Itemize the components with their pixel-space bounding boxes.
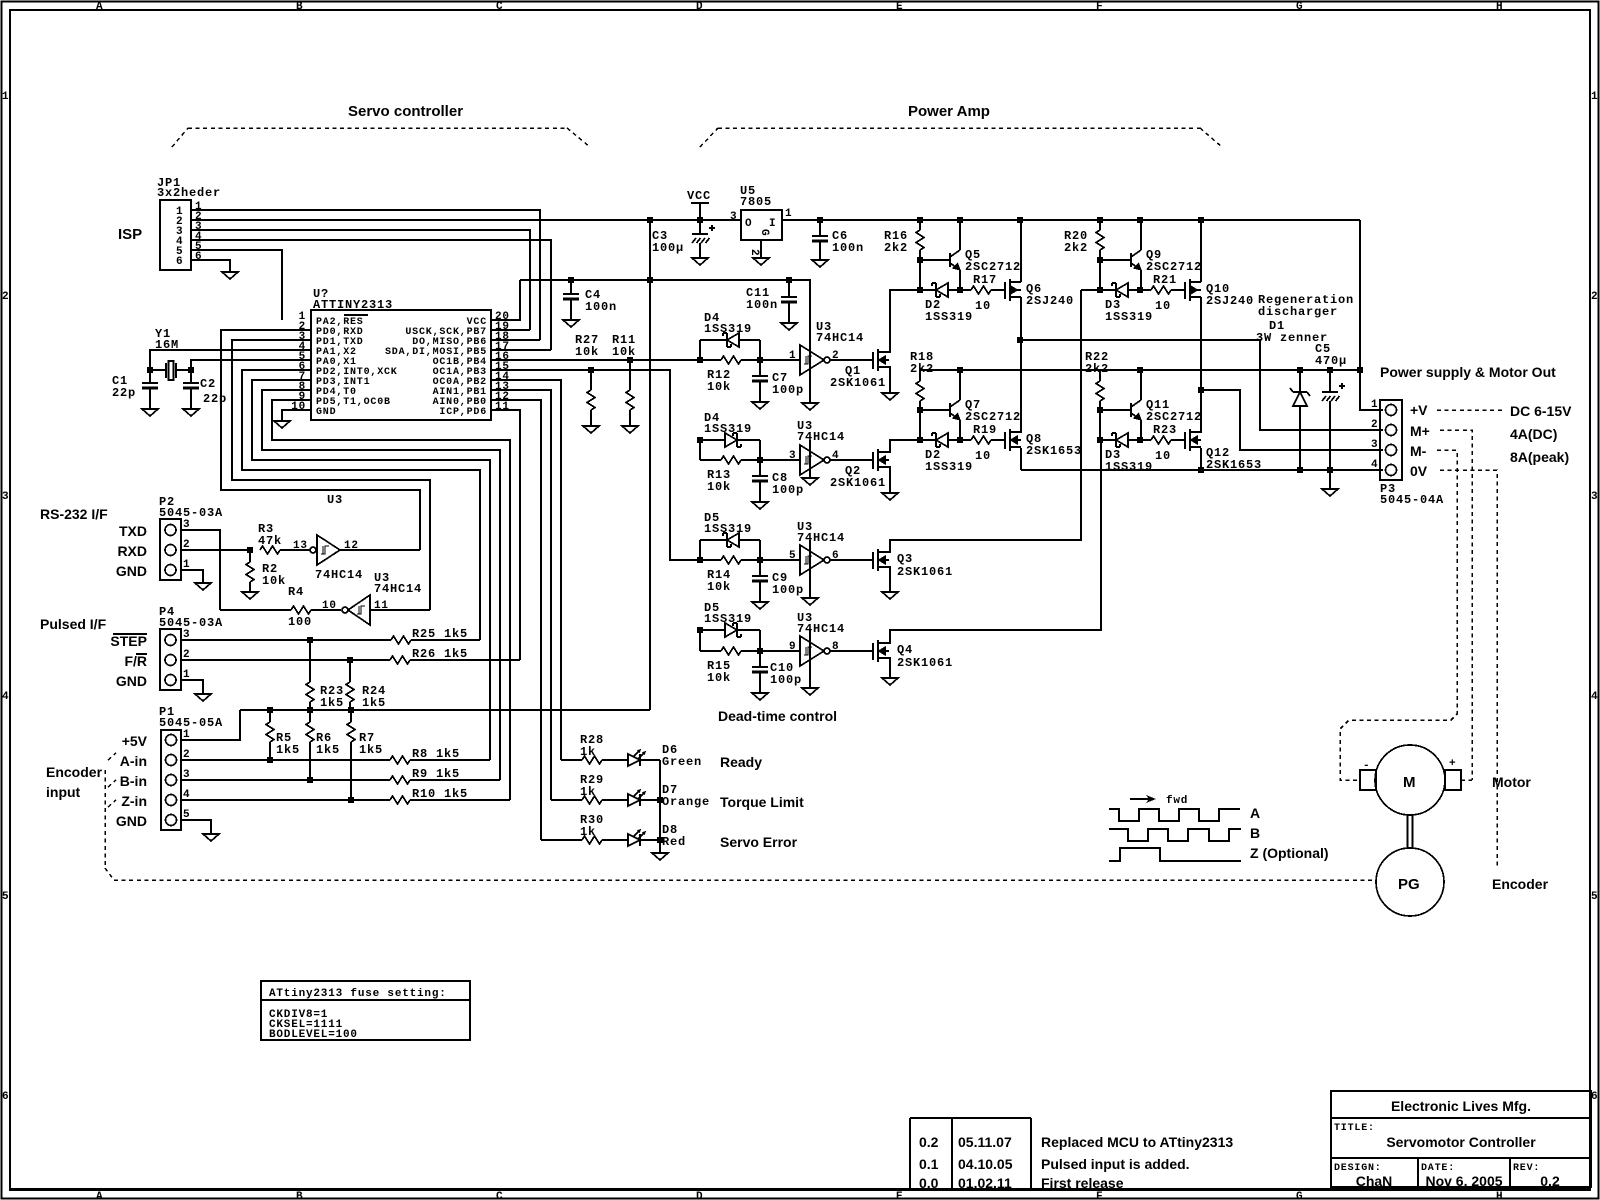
svg-text:Replaced MCU to ATtiny2313: Replaced MCU to ATtiny2313: [1041, 1134, 1233, 1150]
svg-text:VCC: VCC: [687, 189, 711, 203]
svg-text:0.0: 0.0: [919, 1175, 939, 1191]
wire LED common cathode: [659, 760, 661, 853]
junction: [786, 277, 792, 283]
svg-text:BODLEVEL=100: BODLEVEL=100: [269, 1029, 358, 1041]
ground (C7): [752, 402, 768, 409]
wire C1 top lead: [149, 370, 151, 383]
resistor R11: [626, 390, 634, 410]
svg-text:74HC14: 74HC14: [797, 622, 845, 636]
wire R13 to inverter input: [741, 459, 800, 461]
junction: [1097, 257, 1103, 263]
wire R23 to Q12 gate: [1171, 439, 1185, 441]
svg-text:DC 6-15V: DC 6-15V: [1510, 403, 1572, 419]
wire R22 bottom / Q11 base column: [1099, 401, 1101, 440]
svg-text:10: 10: [322, 600, 337, 612]
U? RES overline: [344, 314, 368, 316]
wire R20 bottom / Q9 base column: [1099, 250, 1101, 290]
wire R20 top lead: [1099, 220, 1101, 230]
transistor Q4 2SK1061: [873, 640, 889, 662]
junction: [1137, 367, 1143, 373]
wire C7 bottom lead: [759, 381, 761, 402]
svg-text:3: 3: [2, 491, 9, 503]
svg-text:+: +: [1449, 758, 1456, 770]
wire MCU PD5 to R10: [272, 400, 510, 800]
wire crystal left lead: [150, 369, 166, 371]
wire +V to P3 pin1: [1360, 220, 1383, 410]
P4 pin 3 circle: [165, 635, 176, 646]
wire MCU PA0/X1 to crystal: [191, 360, 311, 370]
wire D1 bottom lead: [1299, 406, 1301, 470]
junction: [307, 777, 313, 783]
wire D1 top lead: [1299, 370, 1301, 392]
wire R18 top lead: [919, 370, 921, 381]
capacitor C2: [183, 383, 199, 388]
svg-text:F: F: [1096, 1, 1103, 13]
inverter U3-C (pins 5/6): [800, 545, 830, 575]
junction: [307, 707, 313, 713]
resistor R10: [390, 796, 410, 804]
junction: [307, 637, 313, 643]
ground (MCU pin10): [274, 421, 290, 428]
svg-text:8A(peak): 8A(peak): [1510, 449, 1569, 465]
junction: [1097, 407, 1103, 413]
ground (P1): [203, 834, 219, 841]
svg-text:2k2: 2k2: [1085, 362, 1109, 376]
resistor R9: [390, 776, 410, 784]
power amp bracket dashed line: [718, 127, 1200, 129]
wire R10 to MCU PD5: [410, 799, 510, 801]
svg-text:input: input: [46, 784, 81, 800]
wire D4/R13 left link: [699, 440, 701, 460]
wire Q5 collector to rail: [959, 220, 961, 250]
resistor R23 (power amp): [1151, 436, 1171, 444]
svg-text:+V: +V: [1410, 402, 1428, 418]
svg-text:0.2: 0.2: [919, 1134, 939, 1150]
svg-text:22p: 22p: [112, 386, 136, 400]
svg-text:U3: U3: [327, 493, 343, 507]
svg-text:Pulsed input is added.: Pulsed input is added.: [1041, 1156, 1190, 1172]
wire Q5 emitter to line A: [959, 270, 961, 290]
wire R11 top lead: [629, 360, 631, 390]
svg-text:100p: 100p: [770, 673, 802, 687]
svg-text:2SJ240: 2SJ240: [1206, 294, 1254, 308]
ground (C1): [142, 409, 158, 416]
capacitor C3 (electrolytic): [692, 225, 715, 243]
wire Q4 drain to gate-drive line D: [889, 440, 1101, 643]
transistor Q7 2SC2712: [950, 400, 960, 420]
svg-text:2SK1061: 2SK1061: [830, 476, 886, 490]
junction: [1097, 437, 1103, 443]
diode D4 1SS319: [723, 333, 739, 347]
svg-text:R17: R17: [973, 273, 997, 287]
wire Q11 emitter to line D: [1140, 420, 1142, 440]
svg-text:GND: GND: [116, 673, 147, 689]
wire R15 left lead: [700, 650, 721, 652]
dashed encoder bus to PG: [114, 879, 1374, 881]
wire D7 to common: [640, 799, 660, 801]
svg-text:Encoder: Encoder: [46, 764, 103, 780]
wire D2 left lead: [920, 289, 936, 291]
svg-text:F/R: F/R: [124, 653, 147, 669]
dashed encoder bus corner: [105, 868, 114, 880]
wire MCU GND pin10: [282, 410, 311, 421]
wire JP1-1 MISO to MCU pin18: [191, 210, 540, 340]
svg-text:22p: 22p: [203, 392, 227, 406]
svg-text:74HC14: 74HC14: [816, 331, 864, 345]
svg-text:R10 1k5: R10 1k5: [412, 787, 468, 801]
junction: [697, 217, 703, 223]
wire MCU PD1/TXD to U3 pin11: [232, 340, 430, 610]
wire bypass diode right lead: [737, 439, 760, 441]
wire gate-drive line B left link: [1081, 289, 1100, 291]
ground (Q1): [882, 393, 898, 400]
svg-text:1: 1: [1591, 91, 1598, 103]
resistor R2: [246, 562, 254, 582]
junction: [1297, 467, 1303, 473]
junction: [347, 657, 353, 663]
wire Q2 drain to gate-drive line C: [889, 440, 920, 452]
connector P1 body: [161, 730, 181, 830]
diode D2 1SS319 (upper): [932, 283, 948, 297]
inverter U3-B (pins 3/4): [800, 445, 830, 475]
encoder PG circle: [1376, 848, 1444, 916]
junction: [957, 367, 963, 373]
svg-text:R26 1k5: R26 1k5: [412, 647, 468, 661]
wire D8 to common: [640, 839, 660, 841]
wire A-in line: [181, 759, 390, 761]
svg-text:2SC2712: 2SC2712: [1146, 260, 1202, 274]
svg-text:2SC2712: 2SC2712: [1146, 410, 1202, 424]
resistor R28: [582, 756, 602, 764]
junction: [757, 557, 763, 563]
svg-text:A: A: [1250, 805, 1260, 821]
wire C2 top lead: [190, 370, 192, 383]
wire Q3 drain to gate-drive line B: [889, 290, 1081, 552]
connector P2 body: [160, 519, 181, 580]
P4 pin 2 circle: [165, 655, 176, 666]
wire JP1-3 SCK to MCU pin19: [191, 230, 530, 330]
junction: [957, 437, 963, 443]
wire C4 top lead: [570, 280, 572, 294]
svg-text:Green: Green: [662, 755, 702, 769]
resistor R20: [1096, 230, 1104, 250]
LED D7 Orange: [628, 789, 646, 806]
wire inverter C ground stub: [809, 540, 811, 598]
F/R overline: [136, 653, 147, 655]
svg-text:470µ: 470µ: [1315, 354, 1347, 368]
wire C3 bottom lead: [699, 243, 701, 258]
svg-text:R23: R23: [1153, 423, 1177, 437]
ground (C6): [812, 260, 828, 267]
ground (0V rail): [1322, 489, 1338, 496]
ground (C3): [692, 258, 708, 265]
wire C10 top lead: [759, 651, 761, 667]
junction: [1327, 467, 1333, 473]
ground (C2): [183, 409, 199, 416]
wire Q9 emitter to line B: [1140, 270, 1142, 290]
servo controller bracket left slant: [172, 128, 188, 147]
svg-text:2k2: 2k2: [910, 362, 934, 376]
wire R2 bottom lead: [249, 582, 251, 592]
svg-text:B: B: [296, 1, 303, 13]
wire R14 left lead: [700, 559, 721, 561]
junction: [267, 757, 273, 763]
wire D5/R15 right link: [759, 630, 761, 651]
transistor Q3 2SK1061: [873, 549, 889, 571]
ground (R2): [242, 592, 258, 599]
wire bypass diode left lead: [700, 339, 727, 341]
svg-text:M-: M-: [1410, 443, 1427, 459]
connector JP1 body: [160, 200, 191, 270]
inverter U3-A (pins 1/2): [800, 345, 830, 375]
junction: [348, 707, 354, 713]
svg-text:Encoder: Encoder: [1492, 876, 1549, 892]
svg-text:4: 4: [1591, 691, 1598, 703]
wire R14 to inverter input: [741, 559, 800, 561]
svg-text:Nov 6, 2005: Nov 6, 2005: [1425, 1173, 1502, 1189]
svg-text:13: 13: [293, 540, 308, 552]
svg-text:10k: 10k: [612, 345, 636, 359]
svg-text:100n: 100n: [585, 300, 617, 314]
wire P1 GND: [181, 820, 211, 834]
wire 5V rail to U3 ground pin: [520, 280, 810, 403]
wire Q6 drain / M+ column: [1020, 297, 1022, 433]
wire R12 left lead: [700, 359, 721, 361]
svg-text:3: 3: [1591, 491, 1598, 503]
P1 pin 1 circle: [166, 735, 177, 746]
svg-text:2: 2: [748, 249, 760, 256]
svg-text:-: -: [1363, 760, 1370, 772]
wire R2 top lead: [249, 550, 251, 562]
wire MCU OC1A/PB3 to dead-time network B: [491, 370, 700, 560]
wire MCU PD0/RXD to U3 pin12: [221, 330, 420, 550]
wire D5/R15 left link: [699, 630, 701, 651]
zener diode D1: [1290, 388, 1310, 406]
svg-text:0V: 0V: [1410, 463, 1428, 479]
svg-text:74HC14: 74HC14: [797, 531, 845, 545]
junction: [757, 457, 763, 463]
svg-text:Ready: Ready: [720, 754, 762, 770]
wire Q7 emitter to line C: [959, 420, 961, 440]
ground (U3 gate D): [802, 688, 818, 695]
svg-text:2: 2: [1371, 419, 1378, 431]
junction: [1297, 367, 1303, 373]
resistor R30: [582, 836, 602, 844]
junction: [1137, 437, 1143, 443]
ground (U3 gate B): [802, 478, 818, 485]
capacitor C4: [563, 294, 579, 299]
wire C8 bottom lead: [759, 481, 761, 502]
junction: [657, 797, 663, 803]
svg-text:2SK1061: 2SK1061: [897, 565, 953, 579]
wire R29 left lead: [551, 799, 582, 801]
svg-text:REV:: REV:: [1513, 1163, 1540, 1174]
wire Q11 collector to +V rail: [1140, 370, 1142, 400]
wire Q4 source to ground: [889, 658, 890, 678]
wire C5 bottom lead: [1329, 401, 1331, 470]
wire MCU PB0 to R30: [491, 400, 541, 840]
svg-text:5045-05A: 5045-05A: [159, 716, 223, 730]
junction: [568, 277, 574, 283]
svg-text:2SJ240: 2SJ240: [1026, 294, 1074, 308]
wire R28 left lead: [561, 759, 582, 761]
wire U3-B output to Q2 gate: [830, 459, 873, 461]
wire bypass diode right lead: [737, 629, 760, 631]
svg-text:4: 4: [2, 691, 9, 703]
wire Q11 base lead: [1100, 409, 1131, 411]
wire JP1-6 to ground: [191, 260, 230, 272]
svg-text:Power Amp: Power Amp: [908, 103, 990, 120]
wire M- dashed to motor: [1340, 450, 1457, 780]
svg-text:G: G: [1296, 1, 1303, 13]
wire MCU PD3 to R8: [252, 380, 490, 760]
wire R27 top lead: [590, 370, 592, 390]
wire R30 to D8: [602, 839, 628, 841]
svg-text:10k: 10k: [707, 580, 731, 594]
wire R8 to MCU PD3: [410, 759, 490, 761]
svg-text:Torque Limit: Torque Limit: [720, 794, 804, 810]
svg-text:1SS319: 1SS319: [925, 460, 973, 474]
svg-text:10k: 10k: [707, 671, 731, 685]
wire R21 to Q10 gate: [1171, 289, 1185, 291]
wire R19 left lead: [960, 439, 971, 441]
wire Z-in line: [181, 799, 390, 801]
wire M- to P3 pin3: [1201, 390, 1383, 450]
P4 pin 1 circle: [165, 675, 176, 686]
wire D2 lower right lead: [948, 439, 960, 441]
svg-text:6: 6: [176, 256, 183, 268]
svg-text:H: H: [1496, 1191, 1503, 1200]
svg-text:Servomotor Controller: Servomotor Controller: [1386, 1134, 1536, 1150]
P3 pin 3 circle: [1386, 445, 1397, 456]
svg-text:2: 2: [2, 291, 9, 303]
svg-text:ICP,PD6: ICP,PD6: [439, 407, 487, 418]
wire inverter B ground stub: [809, 440, 811, 478]
wire VCC vertical feed: [649, 220, 651, 710]
wire P4 GND: [181, 680, 203, 694]
wire Q7 base lead: [920, 409, 950, 411]
wire C9 bottom lead: [759, 581, 761, 602]
resistor R15: [721, 647, 741, 655]
svg-text:2SK1061: 2SK1061: [830, 376, 886, 390]
capacitor C7: [752, 376, 768, 381]
wire D3 lower right lead: [1128, 439, 1140, 441]
wire C6 bottom lead: [819, 241, 821, 260]
svg-text:10k: 10k: [575, 345, 599, 359]
wire Q10 drain / M- column: [1200, 297, 1202, 433]
svg-text:F: F: [1096, 1191, 1103, 1200]
svg-text:05.11.07: 05.11.07: [958, 1134, 1012, 1150]
svg-text:5: 5: [789, 550, 796, 562]
junction: [188, 367, 194, 373]
svg-text:10k: 10k: [262, 574, 286, 588]
wire R5 top lead: [269, 710, 271, 722]
wire Q12 source to 0V rail: [1200, 448, 1202, 470]
wire D4/R12 right link: [759, 340, 761, 360]
capacitor C9: [752, 576, 768, 581]
wire +5V rail: [240, 709, 650, 711]
wire D4/R13 right link: [759, 440, 761, 460]
svg-text:100: 100: [288, 615, 312, 629]
svg-text:R8 1k5: R8 1k5: [412, 747, 460, 761]
junction: [1357, 367, 1363, 373]
svg-text:1k5: 1k5: [276, 743, 300, 757]
transistor Q9 2SC2712: [1131, 250, 1141, 270]
svg-text:2SC2712: 2SC2712: [965, 260, 1021, 274]
junction: [917, 407, 923, 413]
wire U3 pin12 output: [340, 549, 420, 551]
svg-text:1: 1: [2, 91, 9, 103]
svg-text:Q4: Q4: [897, 643, 913, 657]
resistor R29: [582, 796, 602, 804]
svg-text:fwd: fwd: [1166, 795, 1188, 807]
svg-text:100p: 100p: [772, 583, 804, 597]
junction: [817, 217, 823, 223]
svg-text:1k5: 1k5: [362, 696, 386, 710]
wire U3-A output to Q1 gate: [830, 359, 873, 361]
resistor R18: [916, 381, 924, 401]
svg-text:B: B: [1250, 825, 1260, 841]
resistor R12: [721, 356, 741, 364]
transistor Q10 2SJ240: [1185, 279, 1201, 301]
svg-text:5045-04A: 5045-04A: [1380, 493, 1444, 507]
resistor R27: [587, 390, 595, 410]
ground (Q2): [882, 493, 898, 500]
svg-text:2: 2: [1591, 291, 1598, 303]
IC U5 7805 body: [741, 210, 782, 240]
wire Q3 source to ground: [889, 567, 890, 592]
wire U3-C output to Q3 gate: [830, 559, 873, 561]
junction: [1017, 337, 1023, 343]
svg-text:Z (Optional): Z (Optional): [1250, 845, 1329, 861]
svg-text:Pulsed I/F: Pulsed I/F: [40, 616, 107, 632]
resistor R8: [390, 756, 410, 764]
wire R13 left lead: [700, 459, 721, 461]
fwd arrow: [1130, 795, 1156, 803]
transistor Q1 2SK1061: [873, 349, 889, 371]
diode D3 1SS319 (upper): [1112, 283, 1128, 297]
svg-text:2SC2712: 2SC2712: [965, 410, 1021, 424]
capacitor C10: [752, 667, 768, 672]
svg-text:2SK1653: 2SK1653: [1026, 444, 1082, 458]
connector P3 body: [1380, 400, 1402, 480]
junction: [1137, 287, 1143, 293]
svg-text:TITLE:: TITLE:: [1334, 1123, 1375, 1134]
wire R11 bottom lead: [629, 410, 631, 426]
wire C9 top lead: [759, 560, 761, 576]
resistor R4: [291, 606, 311, 614]
wire D6 to common: [640, 759, 660, 761]
wire +V dashed to DC label: [1437, 409, 1502, 411]
wire R25 to MCU PD2: [411, 639, 480, 641]
svg-text:Orange: Orange: [662, 795, 710, 809]
svg-text:Red: Red: [662, 835, 686, 849]
wire 0V dashed: [1440, 470, 1497, 868]
motor M circle: [1375, 745, 1445, 815]
svg-text:0.1: 0.1: [919, 1156, 939, 1172]
svg-text:74HC14: 74HC14: [374, 582, 422, 596]
diode D3 1SS319 (lower): [1112, 433, 1128, 447]
junction: [917, 437, 923, 443]
P3 pin 2 circle: [1386, 425, 1397, 436]
wire R21 left lead: [1140, 289, 1151, 291]
junction: [1198, 217, 1204, 223]
diode D4 1SS319: [725, 433, 741, 447]
wire R17 left lead: [960, 289, 971, 291]
junction: [697, 357, 703, 363]
ground (C11): [781, 323, 797, 330]
svg-text:B-in: B-in: [120, 773, 147, 789]
